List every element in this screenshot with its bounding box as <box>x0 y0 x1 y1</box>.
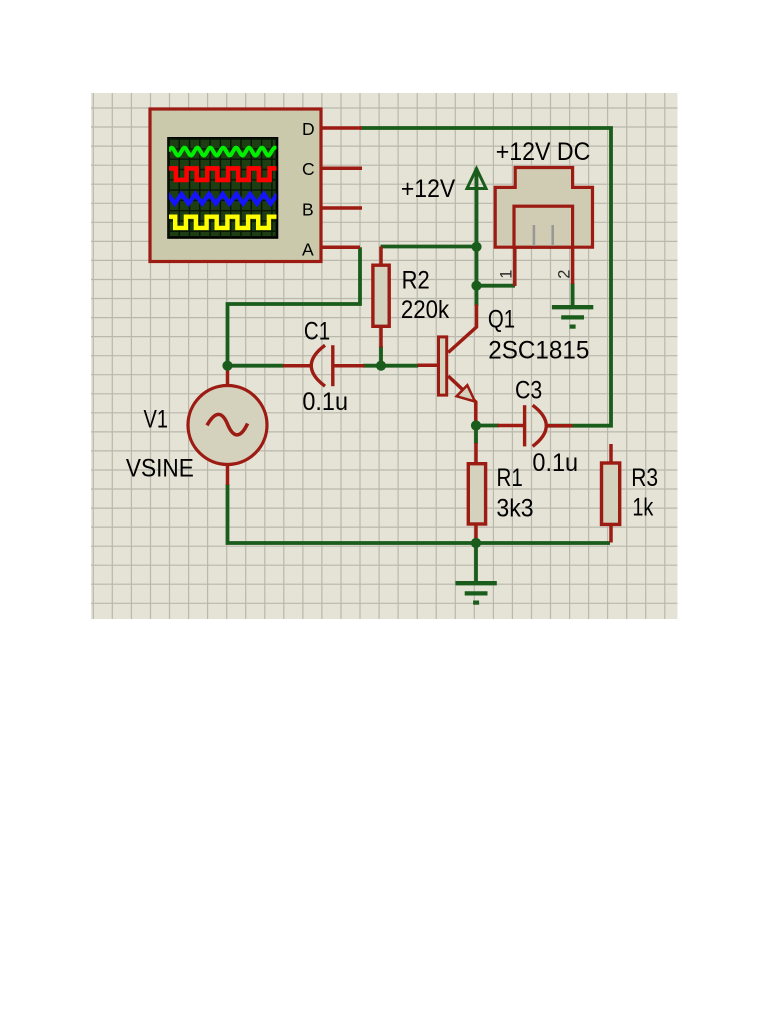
svg-text:A: A <box>302 240 314 260</box>
svg-text:1k: 1k <box>632 494 653 522</box>
svg-text:+12V: +12V <box>401 175 456 203</box>
svg-text:0.1u: 0.1u <box>302 388 348 416</box>
svg-text:2SC1815: 2SC1815 <box>488 337 589 365</box>
svg-text:B: B <box>302 200 314 220</box>
svg-text:R2: R2 <box>402 266 430 294</box>
svg-text:220k: 220k <box>401 296 450 324</box>
svg-text:C3: C3 <box>515 376 542 404</box>
svg-text:VSINE: VSINE <box>126 455 194 483</box>
svg-text:0.1u: 0.1u <box>532 449 578 477</box>
svg-text:D: D <box>302 119 315 139</box>
svg-text:2: 2 <box>555 270 573 279</box>
svg-text:R3: R3 <box>631 464 658 492</box>
svg-text:R1: R1 <box>497 464 523 492</box>
svg-text:3k3: 3k3 <box>496 495 533 523</box>
svg-text:C: C <box>302 159 315 179</box>
svg-text:1: 1 <box>498 270 516 279</box>
svg-text:+12V DC: +12V DC <box>496 138 591 166</box>
svg-text:C1: C1 <box>304 318 330 346</box>
svg-text:V1: V1 <box>144 406 169 434</box>
svg-text:Q1: Q1 <box>488 306 515 334</box>
